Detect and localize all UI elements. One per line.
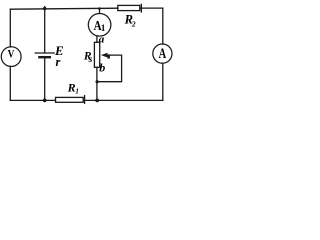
svg-text:1: 1 [75, 88, 79, 96]
svg-text:R: R [67, 81, 76, 95]
svg-text:V: V [8, 48, 15, 61]
svg-text:r: r [56, 55, 61, 69]
svg-text:a: a [99, 34, 105, 46]
svg-text:1: 1 [101, 23, 106, 33]
svg-text:s: s [88, 55, 93, 65]
svg-text:2: 2 [131, 19, 136, 28]
svg-text:A: A [159, 45, 167, 61]
svg-text:b: b [99, 61, 105, 75]
